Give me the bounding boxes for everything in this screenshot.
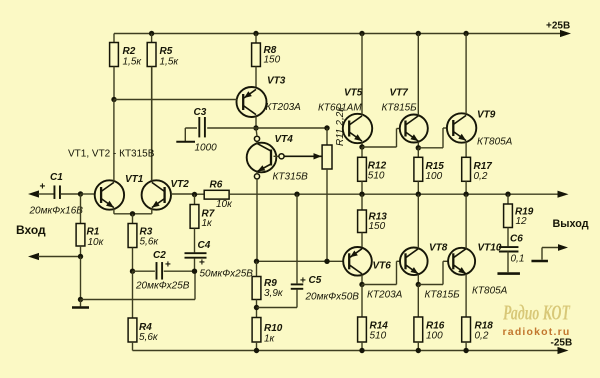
label R3	[140, 227, 160, 248]
arrow -25V terminal	[558, 347, 569, 354]
svg-text:Выход: Выход	[553, 218, 589, 230]
label R4	[139, 322, 159, 343]
svg-text:VT5: VT5	[344, 88, 363, 99]
label C6	[510, 234, 524, 265]
node top rail R8 junction	[253, 31, 258, 36]
svg-text:20мкФх50В: 20мкФх50В	[305, 292, 360, 303]
svg-text:С5: С5	[309, 275, 322, 286]
svg-text:R6: R6	[210, 180, 223, 191]
svg-text:10к: 10к	[216, 199, 233, 210]
svg-text:-25В: -25В	[551, 338, 573, 349]
transistor VT6	[343, 247, 372, 285]
resistor R8	[252, 34, 261, 88]
svg-text:0,1: 0,1	[511, 254, 525, 265]
resistor R16	[414, 285, 423, 351]
svg-text:C1: C1	[50, 172, 63, 183]
node output R12 junction	[359, 192, 364, 197]
node bottom R10 junction	[254, 348, 259, 353]
resistor R6	[204, 190, 229, 199]
ground C6	[497, 272, 520, 275]
svg-text:20мкФх16В: 20мкФх16В	[29, 206, 84, 217]
node output R19 junction	[505, 192, 510, 197]
label C1 value	[29, 206, 84, 217]
node bottom R16 junction	[416, 348, 421, 353]
node output R17 junction	[463, 192, 468, 197]
svg-text:1,5к: 1,5к	[160, 57, 180, 68]
ground input	[72, 300, 89, 308]
label C5	[300, 275, 322, 287]
resistor R18	[462, 317, 471, 351]
transistor VT10	[448, 194, 475, 317]
svg-text:VT3: VT3	[267, 76, 286, 87]
wire VT8 emitter to VT10 base	[418, 261, 448, 284]
label Input	[16, 223, 46, 237]
node top rail VT7 junction	[416, 31, 421, 36]
svg-text:+: +	[40, 182, 46, 193]
label Output	[553, 218, 589, 230]
svg-text:150: 150	[369, 221, 386, 232]
label VT2	[171, 179, 190, 190]
svg-text:C6: C6	[510, 234, 523, 245]
resistor R10	[252, 318, 261, 351]
label R2	[123, 46, 143, 68]
node bottom R18 junction	[463, 348, 468, 353]
transistor VT3	[237, 87, 267, 128]
svg-text:510: 510	[368, 171, 385, 182]
node VT3 collector junction	[253, 125, 258, 130]
label VT7	[382, 88, 418, 114]
node VT6 collector junction	[359, 282, 364, 287]
svg-text:1к: 1к	[264, 334, 276, 345]
resistor R2	[110, 34, 119, 100]
svg-text:0,2: 0,2	[474, 171, 488, 182]
label VT5	[318, 88, 363, 114]
label C4	[198, 240, 211, 269]
label R8	[264, 45, 281, 66]
node VT1 collector junction	[111, 97, 116, 102]
label VT9	[477, 110, 513, 148]
svg-text:3,9к: 3,9к	[264, 288, 284, 299]
resistor R11 trimmer	[322, 128, 332, 261]
svg-text:КТ805А: КТ805А	[472, 286, 508, 297]
label R9	[264, 278, 284, 299]
arrow +25V terminal	[560, 30, 571, 37]
svg-text:КТ203А: КТ203А	[367, 290, 403, 301]
terminal output common	[531, 244, 568, 261]
svg-text:10к: 10к	[88, 237, 105, 248]
wire VT1 collector to VT3 base	[114, 99, 237, 101]
label R19	[515, 207, 534, 228]
wire VT2 base	[171, 193, 195, 195]
svg-text:1,5к: 1,5к	[123, 57, 143, 68]
node output C5 junction	[294, 192, 299, 197]
resistor R9	[252, 261, 261, 317]
capacitor C2	[133, 262, 195, 280]
label R7	[202, 209, 215, 230]
resistor R5	[147, 34, 156, 182]
label R15	[426, 161, 445, 182]
label R11	[335, 106, 346, 146]
label VT8	[425, 243, 461, 301]
svg-text:КТ815Б: КТ815Б	[382, 103, 418, 114]
node output R15 junction	[416, 192, 421, 197]
svg-text:510: 510	[370, 331, 387, 342]
label VT1 VT2 type	[68, 149, 155, 160]
svg-text:1к: 1к	[202, 218, 214, 229]
label R12	[368, 161, 387, 182]
node bottom R14 junction	[359, 348, 364, 353]
svg-text:VT10: VT10	[478, 243, 502, 254]
node input junction	[78, 191, 83, 196]
transistor VT2	[133, 67, 172, 214]
svg-text:+: +	[300, 276, 306, 287]
label R13	[369, 212, 388, 233]
capacitor C4	[185, 228, 207, 271]
node input ground junction	[78, 254, 83, 259]
wire output rail	[195, 193, 560, 195]
label VT3	[266, 76, 302, 114]
label R6	[210, 180, 234, 211]
svg-text:5,6к: 5,6к	[139, 332, 159, 343]
svg-text:20мкФх25В: 20мкФх25В	[135, 281, 190, 292]
resistor R17	[462, 157, 471, 194]
arrow input terminal	[28, 190, 54, 197]
node ground junction	[78, 297, 83, 302]
label R5	[160, 46, 180, 68]
wire VT7 emitter to VT9 base	[418, 128, 447, 148]
svg-text:1000: 1000	[195, 143, 218, 154]
svg-text:КТ315В: КТ315В	[273, 172, 309, 183]
label C5 value	[305, 292, 360, 303]
transistor VT5	[343, 34, 372, 148]
node top rail VT9 junction	[463, 31, 468, 36]
label R17	[474, 161, 493, 182]
label C2 value	[135, 281, 190, 292]
svg-text:5,6к: 5,6к	[140, 237, 160, 248]
node emitter junction	[130, 211, 135, 216]
svg-text:VT9: VT9	[477, 110, 496, 121]
wire VT4 base to R11 wiper	[284, 153, 321, 159]
label C2	[153, 250, 171, 271]
label +25V	[546, 21, 570, 32]
svg-text:+: +	[199, 258, 205, 269]
svg-text:100: 100	[426, 171, 443, 182]
svg-text:R2: R2	[123, 46, 136, 57]
label R14	[370, 321, 389, 342]
node VT8 emitter junction	[416, 282, 421, 287]
node top rail R5 junction	[149, 31, 154, 36]
arrow output terminal	[558, 191, 569, 198]
svg-text:КТ601АМ: КТ601АМ	[318, 103, 362, 114]
svg-text:R1: R1	[87, 227, 100, 238]
node C2 left junction	[130, 269, 135, 274]
node C4 bottom junction	[192, 269, 197, 274]
resistor R15	[414, 148, 423, 194]
node R9 R10 junction	[254, 305, 259, 310]
transistor VT8	[400, 194, 428, 284]
resistor R14	[358, 285, 367, 351]
wire +25V top rail	[114, 33, 561, 35]
resistor R13	[358, 194, 367, 248]
wire VT5 emitter to VT7 base	[362, 129, 400, 148]
node top rail VT5 junction	[359, 31, 364, 36]
label C1	[40, 172, 64, 193]
svg-text:КТ805А: КТ805А	[477, 137, 513, 148]
svg-text:VT2: VT2	[171, 179, 190, 190]
svg-text:VT7: VT7	[390, 88, 409, 99]
label VT1	[125, 174, 144, 185]
label C4 value	[200, 269, 254, 280]
svg-text:+: +	[165, 260, 171, 271]
node R9 top junction	[254, 259, 259, 264]
svg-text:VT8: VT8	[429, 243, 448, 254]
svg-text:VT1, VT2 - КТ315В: VT1, VT2 - КТ315В	[68, 149, 155, 160]
resistor R3	[128, 214, 137, 271]
svg-text:radiokot.ru: radiokot.ru	[503, 326, 571, 338]
label -25V	[551, 338, 573, 349]
resistor R4	[128, 271, 137, 350]
svg-text:12: 12	[516, 216, 528, 227]
resistor R1	[76, 194, 85, 257]
svg-text:R10: R10	[264, 323, 283, 334]
label VT4	[273, 134, 309, 183]
svg-text:+25В: +25В	[546, 21, 570, 32]
node VT2 base junction	[192, 192, 197, 197]
svg-text:VT4: VT4	[275, 134, 294, 145]
svg-text:КТ815Б: КТ815Б	[425, 290, 461, 301]
svg-text:R5: R5	[160, 46, 173, 57]
svg-text:Радио КОТ: Радио КОТ	[502, 301, 570, 325]
wire VT6 collector to VT8 base	[362, 261, 400, 284]
watermark radiokot.ru	[503, 326, 571, 338]
node VT7 emitter junction	[416, 145, 421, 150]
svg-text:VT6: VT6	[373, 261, 392, 272]
label R10	[264, 323, 283, 345]
svg-text:C4: C4	[198, 240, 211, 251]
svg-text:0,2: 0,2	[475, 331, 489, 342]
capacitor C5	[257, 194, 304, 307]
wire R1 bottom down	[80, 257, 82, 300]
capacitor C1	[54, 185, 80, 199]
svg-text:150: 150	[264, 55, 281, 66]
wire NFB ground run	[81, 272, 196, 299]
wire VT3 collector line	[185, 127, 327, 129]
node R11 bottom junction	[324, 259, 329, 264]
transistor VT9	[447, 34, 476, 158]
capacitor C6	[499, 247, 519, 272]
node R11 top junction	[324, 125, 329, 130]
svg-text:КТ203А: КТ203А	[266, 102, 302, 113]
wire input to VT1 base	[81, 193, 95, 195]
svg-text:C3: C3	[194, 107, 207, 118]
label C3	[194, 107, 218, 154]
label R16	[426, 321, 445, 342]
resistor R12	[358, 147, 367, 194]
resistor R19	[504, 194, 513, 246]
transistor VT7	[400, 34, 428, 148]
arrow input ground terminal	[28, 253, 81, 260]
svg-text:100: 100	[426, 331, 443, 342]
node VT5 emitter junction	[359, 144, 364, 149]
capacitor C3	[176, 117, 207, 142]
svg-text:VT1: VT1	[125, 174, 144, 185]
label R1	[87, 227, 105, 249]
svg-text:Вход: Вход	[16, 223, 46, 237]
transistor VT1	[95, 100, 133, 214]
wire lower bias line	[257, 260, 343, 262]
transistor VT4	[247, 128, 284, 261]
wire -25V bottom rail	[133, 350, 560, 352]
resistor R7	[190, 195, 199, 229]
label VT6	[367, 261, 403, 301]
label R18	[475, 321, 494, 342]
svg-text:50мкФх25В: 50мкФх25В	[200, 269, 254, 280]
label VT10	[472, 243, 508, 297]
watermark Radio KOT	[502, 301, 570, 325]
